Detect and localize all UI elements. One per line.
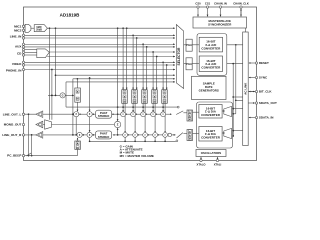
svg-text:MV = MASTER VOLUME: MV = MASTER VOLUME xyxy=(120,154,154,158)
svg-text:STEREO: STEREO xyxy=(98,135,110,139)
svg-text:PC_BEEP: PC_BEEP xyxy=(7,154,21,158)
svg-text:CONVERTER: CONVERTER xyxy=(201,46,221,50)
svg-text:M: M xyxy=(77,99,79,101)
svg-text:M: M xyxy=(189,139,191,141)
svg-text:CS0: CS0 xyxy=(195,1,201,5)
svg-text:CHAIN_IN: CHAIN_IN xyxy=(214,1,227,5)
svg-text:M: M xyxy=(77,147,79,149)
svg-text:M: M xyxy=(124,101,126,103)
svg-text:G: G xyxy=(164,92,166,94)
svg-text:PGA: PGA xyxy=(186,62,192,66)
svg-text:SELECTOR: SELECTOR xyxy=(177,47,181,66)
svg-text:STEREO: STEREO xyxy=(98,114,110,118)
svg-text:M: M xyxy=(144,101,146,103)
svg-text:G: G xyxy=(134,92,136,94)
svg-text:G: G xyxy=(144,92,146,94)
svg-text:CONVERTER: CONVERTER xyxy=(201,65,221,69)
svg-text:G: G xyxy=(189,131,191,133)
svg-text:AC LINK: AC LINK xyxy=(243,82,247,95)
svg-text:VIDEO: VIDEO xyxy=(12,62,22,66)
svg-text:CONVERTER: CONVERTER xyxy=(201,135,221,139)
svg-text:CS1: CS1 xyxy=(205,1,211,5)
svg-text:MIC2: MIC2 xyxy=(14,28,22,32)
svg-text:OSCILLATORS: OSCILLATORS xyxy=(201,151,222,155)
svg-text:SYNCHRONIZER: SYNCHRONIZER xyxy=(208,23,232,27)
svg-text:AD1819B: AD1819B xyxy=(60,12,81,17)
svg-text:G: G xyxy=(62,94,64,97)
svg-text:M: M xyxy=(164,101,166,103)
svg-text:SDATA_OUT: SDATA_OUT xyxy=(259,101,277,105)
svg-text:LINE_OUT_R: LINE_OUT_R xyxy=(2,133,22,137)
svg-text:XTALI: XTALI xyxy=(214,163,222,167)
svg-text:SYNC: SYNC xyxy=(259,76,268,80)
svg-text:20dB: 20dB xyxy=(36,29,42,32)
svg-text:M: M xyxy=(189,119,191,121)
svg-text:G: G xyxy=(124,92,126,94)
svg-text:M: M xyxy=(134,101,136,103)
svg-text:M: M xyxy=(154,101,156,103)
svg-text:Σ: Σ xyxy=(117,123,119,127)
svg-text:RESET: RESET xyxy=(259,61,269,65)
svg-text:AUX: AUX xyxy=(15,44,21,48)
svg-text:PGA: PGA xyxy=(186,43,192,47)
svg-text:MONO_OUT: MONO_OUT xyxy=(4,123,22,127)
svg-text:CHAIN_CLK: CHAIN_CLK xyxy=(233,1,249,5)
svg-text:BIT_CLK: BIT_CLK xyxy=(259,90,273,94)
svg-text:G: G xyxy=(189,112,191,114)
svg-text:XTALO: XTALO xyxy=(197,163,206,167)
svg-text:G: G xyxy=(154,92,156,94)
svg-text:PHONE_IN: PHONE_IN xyxy=(6,68,22,72)
svg-text:CONVERTER: CONVERTER xyxy=(201,113,221,117)
svg-text:SDATA_IN: SDATA_IN xyxy=(259,116,274,120)
svg-text:GENERATORS: GENERATORS xyxy=(199,89,219,93)
svg-text:LINE_OUT_L: LINE_OUT_L xyxy=(3,112,22,116)
svg-text:LINE_IN: LINE_IN xyxy=(10,35,22,39)
